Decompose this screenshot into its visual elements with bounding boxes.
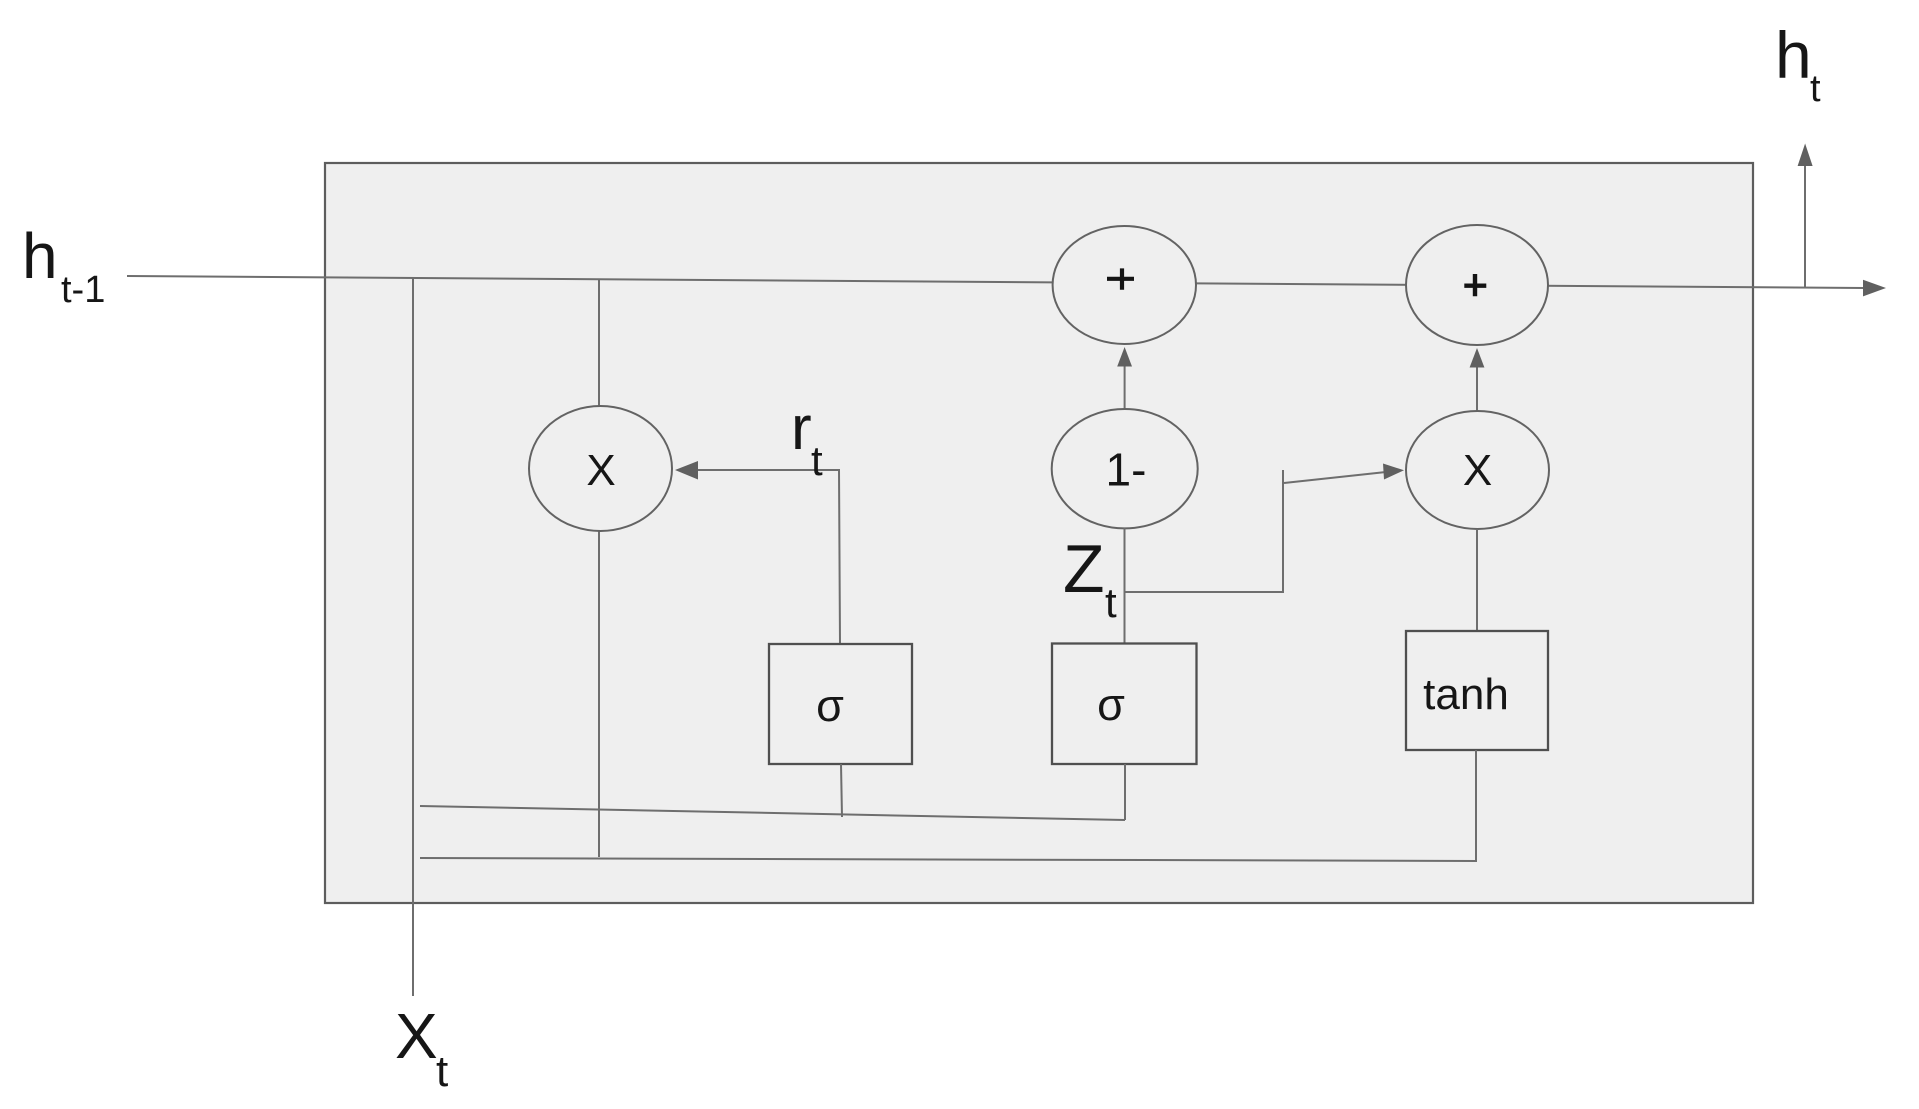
svg-text:Z: Z <box>1063 531 1105 607</box>
svg-text:h: h <box>22 220 58 292</box>
wire X2 bottom to tanh top <box>1476 529 1478 631</box>
svg-text:X: X <box>1463 446 1492 495</box>
wire h_t output vertical <box>1804 164 1806 288</box>
svg-text:r: r <box>791 394 812 463</box>
svg-text:t: t <box>811 437 823 484</box>
svg-text:t: t <box>1810 68 1821 110</box>
svg-text:σ: σ <box>816 680 844 731</box>
wire sigma2 bottom connector <box>1124 764 1126 820</box>
arrowhead h_t up <box>1798 144 1813 167</box>
svg-text:X: X <box>395 1000 438 1072</box>
svg-text:t: t <box>436 1047 448 1096</box>
wire input bus to tanh (lower) <box>420 858 1477 861</box>
arrow 1minus to plus1 <box>1117 347 1132 411</box>
svg-text:1-: 1- <box>1106 444 1147 496</box>
node one-minus circle <box>1052 409 1198 528</box>
wire h to multiply X1 top stub <box>598 279 600 407</box>
node X1 multiply circle <box>529 406 672 531</box>
node plus2 circle <box>1406 225 1548 345</box>
svg-text:σ: σ <box>1097 679 1125 730</box>
wire X1 bottom down to input bus <box>598 530 600 857</box>
arrowhead h_t-1 output right <box>1863 280 1886 297</box>
svg-text:X: X <box>586 446 615 495</box>
svg-text:t-1: t-1 <box>61 269 105 311</box>
label Z_t <box>1063 531 1117 626</box>
label r_t <box>791 394 823 484</box>
label X_t <box>395 1000 448 1096</box>
label h_t <box>1775 18 1821 110</box>
GRU cell body <box>325 163 1753 903</box>
svg-text:tanh: tanh <box>1423 670 1509 719</box>
arrow r_t into X1 <box>675 461 840 644</box>
node X2 multiply circle <box>1406 411 1549 529</box>
box sigma 2 <box>1052 644 1197 765</box>
wire X_t input vertical <box>412 278 414 996</box>
wire input bus to sigmas (sloped) <box>420 806 1125 820</box>
svg-text:t: t <box>1105 579 1117 626</box>
wire h_t-1 main horizontal line <box>127 276 1864 288</box>
wire sigma1 bottom connector <box>841 764 842 817</box>
node plus1 circle <box>1053 226 1196 344</box>
wire Z_t branch to X2 <box>1125 464 1405 593</box>
arrow X2 to plus2 <box>1470 348 1485 411</box>
wire tanh bottom to input bus <box>1475 750 1477 861</box>
box tanh <box>1406 631 1548 750</box>
wire one-minus down to sigma2 <box>1124 528 1126 644</box>
svg-text:h: h <box>1775 18 1812 92</box>
box sigma 1 <box>769 644 912 764</box>
label h_t-1 <box>22 220 105 311</box>
